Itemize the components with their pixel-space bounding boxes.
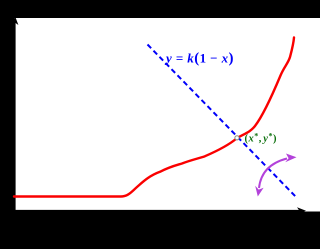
magenta arrowhead right (285, 154, 296, 163)
magenta rotation arrow (double-headed arc) (259, 159, 287, 189)
y-axis (14, 22, 16, 211)
blue dashed load line (148, 45, 297, 198)
svg-text:(x*, y*): (x*, y*) (245, 132, 277, 145)
svg-text:y = k(1 − x): y = k(1 − x) (164, 51, 234, 67)
y-axis arrowhead (12, 16, 19, 25)
magenta arrowhead bottom (255, 186, 263, 197)
white plot interior (14, 18, 320, 212)
intersection point marker (235, 136, 239, 140)
x-axis arrowhead (297, 207, 306, 214)
x-axis (14, 210, 300, 212)
red curve (14, 38, 294, 197)
